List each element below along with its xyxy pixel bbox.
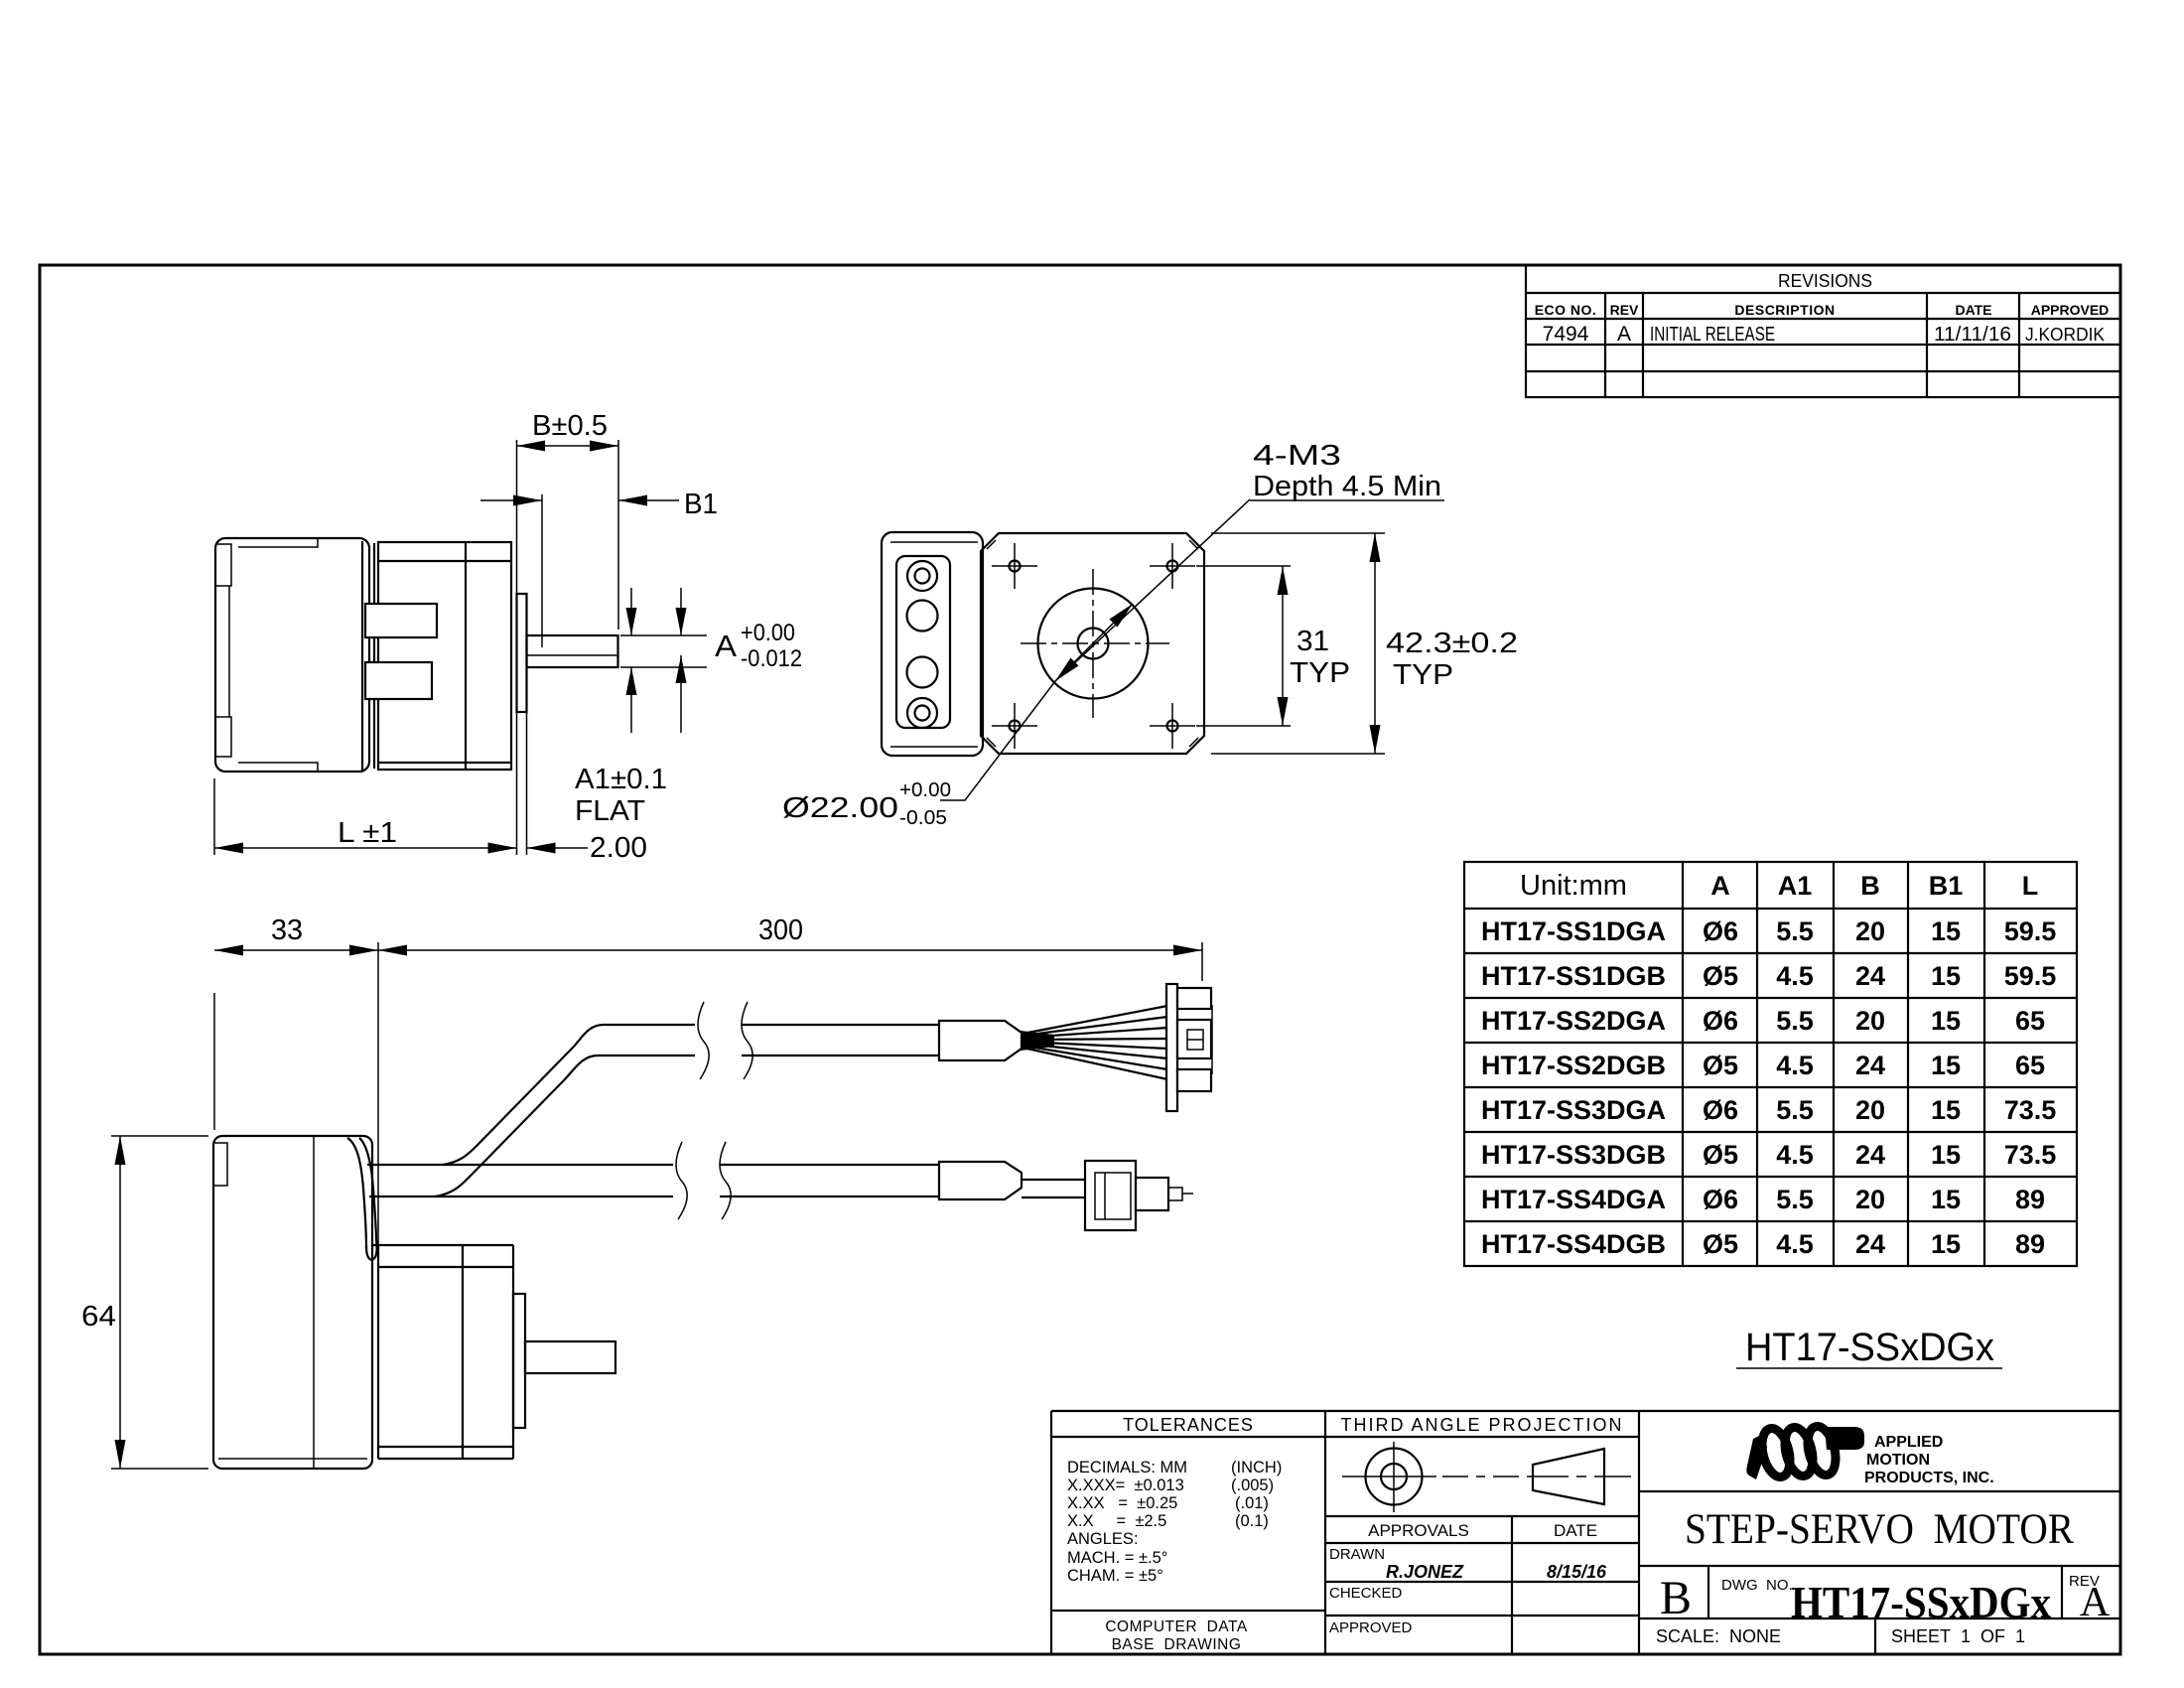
svg-text:5.5: 5.5 — [1776, 1095, 1814, 1125]
approvals/date divider — [1511, 1516, 1513, 1654]
svg-text:89: 89 — [2015, 1185, 2045, 1214]
svg-text:20: 20 — [1855, 1185, 1885, 1214]
bottom view rear housing — [213, 1136, 372, 1469]
svg-text:Ø5: Ø5 — [1703, 1051, 1738, 1080]
svg-text:B±0.5: B±0.5 — [532, 410, 608, 442]
svg-text:REV: REV — [1610, 302, 1639, 318]
bottom view motor front body sides — [377, 1245, 379, 1459]
svg-text:15: 15 — [1931, 1051, 1961, 1080]
svg-text:+0.00: +0.00 — [899, 779, 951, 801]
rear view plate chamfer inner lines — [987, 540, 996, 549]
bottom view cable boot inner edge — [359, 1138, 376, 1239]
symbol cell bottom line — [1325, 1515, 1639, 1517]
rear view mounting hole BL — [1010, 721, 1021, 732]
dimension 300 ext line right — [1201, 942, 1203, 981]
svg-text:DESCRIPTION: DESCRIPTION — [1734, 302, 1835, 318]
svg-text:4.5: 4.5 — [1776, 1229, 1814, 1259]
dimension 2.00 ext line right — [526, 712, 528, 855]
rear view connector pocket — [896, 556, 950, 728]
dimension 33-300 shared ext line — [377, 942, 379, 1245]
rev cell divider — [2061, 1566, 2063, 1618]
svg-text:24: 24 — [1855, 1229, 1885, 1259]
revisions table row lines — [1526, 292, 2120, 294]
svg-text:65: 65 — [2015, 1051, 2045, 1080]
svg-text:(.005): (.005) — [1231, 1477, 1274, 1494]
svg-text:L: L — [2022, 871, 2039, 901]
svg-text:5.5: 5.5 — [1776, 1185, 1814, 1214]
svg-text:APPROVED: APPROVED — [2031, 302, 2110, 318]
rear view screw circle bottom — [907, 698, 937, 728]
dimension A arrow stack x686 bottom — [680, 655, 682, 733]
svg-text:Ø6: Ø6 — [1703, 1006, 1738, 1036]
dimension 64 line — [119, 1136, 121, 1469]
label underline — [1250, 499, 1444, 501]
svg-text:APPLIED: APPLIED — [1874, 1434, 1943, 1451]
svg-text:5.5: 5.5 — [1776, 916, 1814, 946]
title block outline top and left — [1051, 1410, 2120, 1412]
rear view mounting hole TL — [1010, 561, 1021, 572]
svg-text:ANGLES:: ANGLES: — [1067, 1530, 1139, 1548]
power connector plug — [1136, 1178, 1168, 1210]
AMP logo flag — [1825, 1427, 1864, 1450]
dimension B1 arrow right — [618, 495, 647, 506]
svg-text:HT17-SSxDGx: HT17-SSxDGx — [1791, 1577, 2051, 1627]
AMP logo left tail — [1746, 1433, 1767, 1479]
svg-text:DWG NO.: DWG NO. — [1721, 1577, 1793, 1594]
bottom view motor front body top lines — [373, 1244, 513, 1246]
svg-text:REVISIONS: REVISIONS — [1778, 271, 1872, 291]
dimension 300 line — [378, 949, 1202, 951]
motor connector tooth bottom — [1177, 1069, 1211, 1091]
dimension A arrow stack x686 top — [680, 588, 682, 635]
svg-text:FLAT: FLAT — [575, 795, 645, 827]
svg-text:33: 33 — [271, 914, 303, 946]
rear view hole circle upper middle — [907, 601, 938, 632]
dimension B arrows — [517, 441, 546, 452]
svg-text:TOLERANCES: TOLERANCES — [1123, 1415, 1254, 1435]
dwg row bottom line — [1639, 1618, 2120, 1619]
svg-text:73.5: 73.5 — [2004, 1140, 2057, 1170]
dimension L arrows — [214, 843, 243, 854]
svg-text:64: 64 — [81, 1301, 116, 1333]
svg-text:MOTION: MOTION — [1866, 1452, 1930, 1469]
svg-text:Ø6: Ø6 — [1703, 1095, 1738, 1125]
dimension table row HT17-SS3DGB — [1481, 1140, 2056, 1170]
dimension A ext line top — [620, 634, 707, 636]
svg-text:SCALE: NONE: SCALE: NONE — [1656, 1626, 1781, 1646]
svg-text:HT17-SS3DGA: HT17-SS3DGA — [1481, 1095, 1666, 1125]
svg-text:A: A — [1617, 323, 1631, 346]
svg-text:Ø6: Ø6 — [1703, 1185, 1738, 1214]
rear view vertical centerline — [1092, 569, 1094, 718]
bottom view cable boot bottom cap — [366, 1239, 377, 1260]
rear view shaft circle — [1078, 629, 1109, 659]
motor connector center block — [1177, 1020, 1211, 1058]
dimension A ext line bottom — [620, 666, 707, 668]
svg-text:24: 24 — [1855, 961, 1885, 991]
svg-text:8/15/16: 8/15/16 — [1547, 1562, 1607, 1582]
dimension 64 ext line bottom — [111, 1468, 208, 1470]
svg-text:HT17-SS3DGB: HT17-SS3DGB — [1481, 1140, 1666, 1170]
svg-text:31: 31 — [1297, 626, 1329, 657]
svg-text:DRAWN: DRAWN — [1329, 1546, 1385, 1563]
svg-text:X.XXX= ±0.013: X.XXX= ±0.013 — [1067, 1477, 1184, 1494]
svg-text:DECIMALS: MM: DECIMALS: MM — [1067, 1459, 1187, 1477]
svg-text:SHEET 1 OF 1: SHEET 1 OF 1 — [1891, 1626, 2025, 1646]
svg-text:CHAM. = ±5°: CHAM. = ±5° — [1067, 1567, 1163, 1585]
dimension 2.00 ext line left — [516, 594, 518, 855]
power connector inner detail — [1095, 1173, 1131, 1219]
svg-text:INITIAL RELEASE: INITIAL RELEASE — [1650, 324, 1775, 346]
svg-text:89: 89 — [2015, 1229, 2045, 1259]
dimension B ext line left — [516, 440, 518, 594]
rear view horizontal centerline — [1021, 642, 1169, 644]
svg-text:Ø5: Ø5 — [1703, 1140, 1738, 1170]
bottom view housing inner vertical line — [313, 1136, 315, 1469]
bottom view shaft — [525, 1341, 615, 1373]
bottom view housing inner bottom line — [218, 1458, 367, 1460]
projection symbol centerline — [1342, 1476, 1436, 1477]
svg-text:TYP: TYP — [1393, 659, 1453, 691]
svg-text:HT17-SS2DGA: HT17-SS2DGA — [1481, 1006, 1666, 1036]
svg-text:L ±1: L ±1 — [338, 817, 397, 849]
dimension B line — [517, 445, 619, 447]
svg-text:-0.012: -0.012 — [741, 645, 802, 672]
svg-text:A: A — [715, 629, 737, 663]
upper cable diagonal bottom line — [435, 1055, 695, 1196]
svg-text:15: 15 — [1931, 916, 1961, 946]
lower cable segment 1 bottom line — [369, 1196, 673, 1197]
tolerances column divider — [1324, 1411, 1326, 1654]
side view shaft — [527, 635, 618, 667]
power cable ferrule — [939, 1162, 1022, 1199]
upper cable wire fan — [1021, 1031, 1054, 1051]
side view dark junction band left — [361, 541, 363, 771]
side view connector tab upper — [365, 604, 437, 637]
lower cable break arcs — [676, 1142, 687, 1219]
side view flange plate 2.00 — [517, 594, 527, 712]
svg-text:PRODUCTS, INC.: PRODUCTS, INC. — [1864, 1470, 1994, 1486]
svg-text:2.00: 2.00 — [590, 832, 647, 864]
svg-text:(.01): (.01) — [1235, 1494, 1269, 1512]
svg-text:THIRD ANGLE PROJECTION: THIRD ANGLE PROJECTION — [1340, 1415, 1623, 1435]
svg-text:15: 15 — [1931, 961, 1961, 991]
motor connector body bar — [1166, 984, 1177, 1111]
bottom view housing top-left notch — [213, 1143, 227, 1186]
lower cable segment 2 — [720, 1164, 940, 1166]
svg-text:B: B — [1660, 1572, 1692, 1624]
side view rear cap inner edge line — [228, 586, 230, 717]
dimension A arrow stack x636 bottom — [630, 667, 632, 733]
upper cable ferrule — [939, 1021, 1022, 1060]
tolerances / third-angle header bottom line — [1051, 1436, 1639, 1438]
dimension 2.00 leader — [527, 847, 589, 849]
svg-text:24: 24 — [1855, 1051, 1885, 1080]
svg-text:Depth 4.5 Min: Depth 4.5 Min — [1253, 471, 1441, 502]
dimension L ext line left — [213, 778, 215, 855]
svg-text:B1: B1 — [1929, 871, 1964, 901]
bottom view motor front body bottom lines — [378, 1458, 513, 1460]
approvals header bottom line — [1325, 1542, 1639, 1544]
svg-text:20: 20 — [1855, 1006, 1885, 1036]
side view motor body outline — [378, 542, 511, 770]
upper cable segment 2 — [742, 1024, 940, 1026]
svg-text:4-M3: 4-M3 — [1253, 440, 1341, 472]
side view motor body inner top line — [378, 560, 511, 562]
scale/sheet divider — [1874, 1618, 1876, 1654]
svg-text:X.XX = ±0.25: X.XX = ±0.25 — [1067, 1494, 1177, 1512]
bottom view cable boot outer edge — [347, 1138, 366, 1248]
svg-text:24: 24 — [1855, 1140, 1885, 1170]
svg-text:HT17-SSxDGx: HT17-SSxDGx — [1745, 1326, 1994, 1369]
svg-text:HT17-SS1DGB: HT17-SS1DGB — [1481, 961, 1666, 991]
svg-text:Unit:mm: Unit:mm — [1520, 870, 1627, 902]
svg-text:Ø22.00: Ø22.00 — [782, 792, 898, 824]
side view motor body inner bottom line — [378, 762, 511, 764]
leader arrowhead at circle upper right — [1110, 604, 1134, 628]
svg-text:HT17-SS4DGB: HT17-SS4DGB — [1481, 1229, 1666, 1259]
dimension B1 arrow left — [513, 495, 542, 506]
svg-text:4.5: 4.5 — [1776, 1140, 1814, 1170]
svg-text:A1: A1 — [1778, 871, 1813, 901]
revisions table column lines — [1604, 293, 1606, 397]
dimension table column lines — [1682, 862, 1684, 1266]
right section divider — [1638, 1411, 1640, 1654]
AMP logo coil — [1757, 1424, 1840, 1480]
power cable wires — [1022, 1179, 1086, 1181]
projection symbol cone — [1533, 1449, 1604, 1504]
dimension table row HT17-SS1DGB — [1481, 961, 2056, 991]
side view rear cap bottom notch — [215, 717, 231, 757]
svg-text:MACH. = ±.5°: MACH. = ±.5° — [1067, 1549, 1167, 1567]
dimension L line — [214, 847, 517, 849]
svg-text:15: 15 — [1931, 1095, 1961, 1125]
computer data cell divider — [1051, 1610, 1325, 1612]
svg-text:HT17-SS1DGA: HT17-SS1DGA — [1481, 916, 1666, 946]
side view cap top inner line — [238, 538, 318, 547]
rear view connector housing — [882, 532, 983, 756]
upper cable diagonal top line — [443, 1025, 695, 1165]
leader arrowhead at circle lower left — [1055, 658, 1079, 682]
dimension 42.3 ext lines — [1211, 532, 1385, 534]
svg-text:65: 65 — [2015, 1006, 2045, 1036]
sheet border frame — [40, 265, 2120, 1654]
dimension B1 line right — [618, 499, 679, 501]
side view cap bottom inner line — [238, 763, 318, 772]
svg-text:4.5: 4.5 — [1776, 1051, 1814, 1080]
svg-text:APPROVED: APPROVED — [1329, 1619, 1413, 1636]
svg-text:Ø5: Ø5 — [1703, 1229, 1738, 1259]
svg-text:20: 20 — [1855, 1095, 1885, 1125]
dimension 42.3 line — [1374, 533, 1376, 754]
svg-text:A1±0.1: A1±0.1 — [575, 764, 667, 795]
logo cell bottom line — [1639, 1490, 2120, 1492]
svg-text:Ø5: Ø5 — [1703, 961, 1738, 991]
svg-text:Ø6: Ø6 — [1703, 916, 1738, 946]
side view rear cap top notch — [215, 544, 231, 586]
svg-text:300: 300 — [758, 914, 803, 946]
bottom view pilot boss — [513, 1294, 525, 1428]
svg-text:COMPUTER DATA: COMPUTER DATA — [1105, 1618, 1248, 1635]
svg-text:5.5: 5.5 — [1776, 1006, 1814, 1036]
svg-text:20: 20 — [1855, 916, 1885, 946]
svg-text:DATE: DATE — [1955, 302, 1991, 318]
dimension 31 ext lines — [1196, 565, 1291, 567]
svg-text:73.5: 73.5 — [2004, 1095, 2057, 1125]
dimension 31 line — [1282, 566, 1284, 726]
svg-text:TYP: TYP — [1290, 657, 1350, 689]
rear view face plate octagon — [981, 533, 1204, 754]
projection symbol vertical line — [1393, 1442, 1395, 1512]
dimension B1 line left — [480, 499, 542, 501]
svg-text:4.5: 4.5 — [1776, 961, 1814, 991]
rear view hole circle lower middle — [907, 657, 938, 688]
size cell divider — [1707, 1566, 1709, 1618]
svg-text:B1: B1 — [684, 489, 718, 520]
svg-text:APPROVALS: APPROVALS — [1368, 1521, 1469, 1540]
rear view housing inner top line — [890, 541, 978, 543]
svg-text:STEP-SERVO MOTOR: STEP-SERVO MOTOR — [1685, 1506, 2074, 1553]
svg-text:BASE DRAWING: BASE DRAWING — [1112, 1636, 1242, 1653]
svg-text:DATE: DATE — [1554, 1521, 1597, 1540]
svg-text:B: B — [1860, 871, 1880, 901]
svg-text:7494: 7494 — [1543, 323, 1589, 346]
svg-text:15: 15 — [1931, 1006, 1961, 1036]
svg-text:A: A — [1710, 871, 1730, 901]
svg-text:HT17-SS2DGB: HT17-SS2DGB — [1481, 1051, 1666, 1080]
dimension 64 ext line top — [111, 1135, 208, 1137]
title cell bottom line — [1639, 1565, 2120, 1567]
dimension B1 ext line — [541, 494, 543, 647]
rear view mounting hole BR — [1167, 721, 1178, 732]
dimension table row HT17-SS2DGA — [1481, 1006, 2045, 1036]
leader line 4-M3 / diameter 22 — [940, 499, 1250, 800]
svg-text:HT17-SS4DGA: HT17-SS4DGA — [1481, 1185, 1666, 1214]
dimension table row HT17-SS2DGB — [1481, 1051, 2045, 1080]
rear view screw circle top — [907, 561, 937, 591]
svg-text:R.JONEZ: R.JONEZ — [1386, 1562, 1464, 1582]
svg-text:15: 15 — [1931, 1229, 1961, 1259]
svg-text:ECO NO.: ECO NO. — [1535, 302, 1597, 318]
dimension A arrow stack x636 top — [630, 588, 632, 635]
revisions table outline — [1526, 265, 2120, 397]
motor connector center inner detail — [1187, 1030, 1203, 1050]
lower cable segment 1 top line — [367, 1164, 673, 1166]
dimension B ext line right — [617, 440, 619, 630]
svg-text:J.KORDIK: J.KORDIK — [2025, 325, 2105, 345]
side view dark junction band right — [373, 543, 375, 769]
dimension table row HT17-SS4DGB — [1481, 1229, 2045, 1259]
motor connector tooth top — [1177, 988, 1211, 1009]
svg-text:15: 15 — [1931, 1140, 1961, 1170]
svg-text:A: A — [2080, 1580, 2111, 1625]
dimension 33 line — [214, 949, 378, 951]
side view motor body internal vertical line — [465, 542, 467, 770]
rear view mounting hole TR — [1167, 561, 1178, 572]
tolerances text block — [1067, 1459, 1282, 1585]
dimension table row HT17-SS3DGA — [1481, 1095, 2056, 1125]
motor connector right edge — [1211, 1005, 1213, 1074]
power connector body — [1085, 1161, 1136, 1230]
rear view housing inner bottom line — [890, 746, 978, 748]
svg-text:(INCH): (INCH) — [1231, 1459, 1282, 1477]
svg-text:+0.00: +0.00 — [741, 620, 795, 646]
power connector plug prong — [1168, 1188, 1182, 1200]
dimension table outline — [1464, 862, 2077, 1266]
side view connector tab lower — [365, 662, 432, 699]
svg-text:X.X = ±2.5: X.X = ±2.5 — [1067, 1512, 1166, 1530]
dimension table row HT17-SS4DGA — [1481, 1185, 2045, 1214]
svg-text:-0.05: -0.05 — [899, 807, 947, 829]
svg-text:59.5: 59.5 — [2004, 916, 2057, 946]
upper cable break arcs — [698, 1002, 709, 1079]
svg-text:(0.1): (0.1) — [1235, 1512, 1269, 1530]
side view rear cap housing — [215, 538, 369, 772]
projection symbol circle — [1366, 1449, 1423, 1505]
dimension table row HT17-SS1DGA — [1481, 916, 2056, 946]
dimension table row lines — [1464, 908, 2077, 910]
svg-text:CHECKED: CHECKED — [1329, 1585, 1403, 1602]
svg-text:15: 15 — [1931, 1185, 1961, 1214]
svg-text:42.3±0.2: 42.3±0.2 — [1386, 628, 1518, 659]
rear view pilot circle — [1038, 589, 1149, 699]
svg-text:11/11/16: 11/11/16 — [1934, 324, 2011, 346]
dimension 33 ext line left — [213, 993, 215, 1130]
drawing name underline — [1736, 1367, 2002, 1369]
svg-text:59.5: 59.5 — [2004, 961, 2057, 991]
side view shaft flat line — [527, 654, 618, 656]
